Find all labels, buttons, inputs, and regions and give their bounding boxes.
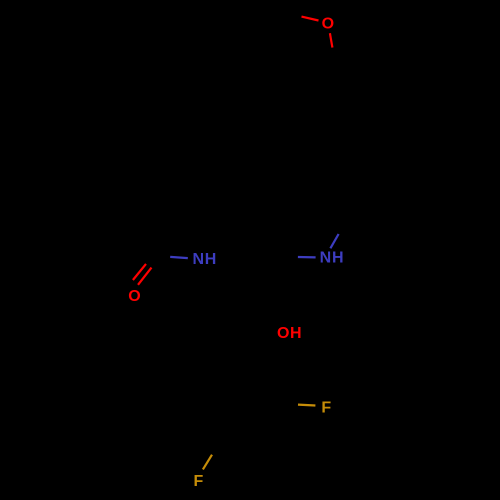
wire: O-aryl bond (red half) — [330, 33, 333, 47]
svg-text:F: F — [194, 473, 204, 490]
wire: ring CH2 to NH bond (blue half) — [330, 234, 338, 248]
svg-text:NH: NH — [192, 251, 217, 268]
wire: C=O double bond line 2 (red half) — [133, 264, 146, 280]
wire: aryl C to F bond lower (gold half) — [203, 455, 212, 470]
wire: CH to NH bond (blue half) — [298, 256, 316, 259]
svg-text:NH: NH — [320, 249, 345, 266]
svg-text:O: O — [128, 288, 140, 305]
svg-text:F: F — [321, 399, 331, 416]
wire: C=O double bond line 1 (red half) — [138, 268, 152, 285]
wire: methoxy CH3-O bond (red half) — [302, 17, 319, 21]
svg-text:O: O — [322, 16, 334, 33]
wire: aryl C to F bond (gold half) — [298, 404, 315, 407]
svg-text:OH: OH — [277, 325, 302, 342]
wire: carbonyl C to amide N bond (blue half) — [170, 257, 188, 258]
